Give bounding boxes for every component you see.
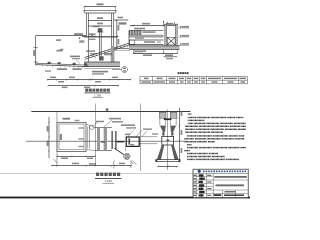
table title: [178, 72, 189, 74]
company name: [203, 171, 246, 173]
interior water level marks: [89, 33, 96, 35]
small box at left end: [130, 40, 135, 44]
third col texts: [207, 175, 211, 196]
gate dark bar: [164, 118, 172, 120]
embankment slope double line: [85, 43, 130, 58]
left label texts: [194, 175, 197, 196]
gate hoist: [98, 28, 103, 32]
right vertical dim: [179, 108, 181, 160]
forebay box inner: [59, 124, 84, 150]
foundation note text: [92, 71, 108, 73]
outlet channel walls: [140, 136, 158, 138]
end sill: [155, 159, 180, 161]
valve chamber thick box: [126, 137, 139, 146]
culvert barrel: [129, 39, 164, 41]
dim texts around line1: [50, 77, 56, 79]
leaders and labels above valve chamber: [128, 130, 134, 137]
converging walls: [160, 126, 166, 132]
inlet labels: [143, 31, 156, 33]
approach channel hatch ticks: [42, 65, 83, 69]
reservoir level line: [36, 35, 87, 37]
faint sheet guide line: [0, 173, 193, 175]
labels above channel with leader: [57, 50, 63, 52]
gate stem: [99, 32, 101, 57]
data row texts: [142, 81, 246, 82]
signature blobs: [199, 174, 205, 196]
second dim: [164, 56, 178, 58]
sheet bottom border bar: [0, 197, 250, 199]
foundation slab hatched: [84, 62, 120, 67]
vertical centerline: [167, 110, 169, 171]
label above box: [63, 118, 71, 120]
base slab hatched: [129, 46, 180, 50]
svg-text:1:100: 1:100: [94, 94, 101, 98]
section cut vertical x95: [94, 104, 96, 167]
right gate tower: [164, 23, 177, 25]
operating platform deck: [82, 36, 118, 38]
slope hatch ticks: [88, 45, 125, 59]
project name: [214, 176, 247, 178]
small labels right inside box: [79, 127, 84, 128]
header row texts: [144, 78, 246, 79]
labels above strips: [104, 120, 112, 127]
up arrow left of tower: [163, 21, 165, 26]
plan main dim line: [51, 165, 131, 167]
circle callout with thick leader: [124, 153, 130, 159]
small label near bowtie top: [106, 108, 109, 111]
tower right wall: [111, 13, 113, 62]
interior floor line 2: [88, 25, 111, 27]
top wing blocks hatched: [159, 112, 166, 118]
base note text: [134, 50, 146, 52]
dim text 2500: [97, 3, 104, 5]
mid channel walls: [159, 118, 161, 125]
plan title: [96, 173, 120, 176]
wall end blobs: [162, 132, 164, 135]
break wavy: [113, 161, 114, 169]
title block grid: [193, 173, 248, 197]
label above hoist: [93, 26, 100, 28]
transition diagonals: [86, 124, 95, 128]
bottom dim line: [134, 53, 178, 55]
right retaining wall hatched: [111, 46, 115, 62]
forebay box outer: [57, 122, 86, 151]
note word gaps: [193, 117, 241, 161]
gate slot verticals after box: [87, 127, 89, 149]
channel centerline: [26, 140, 187, 142]
interior floor line 1: [88, 20, 111, 22]
middle box: [162, 136, 174, 145]
water mark below platform left: [79, 40, 84, 42]
bottom row entries: [225, 191, 236, 193]
gate at bottom: [99, 56, 104, 60]
dam axis long line: [31, 111, 190, 113]
label above inlet: [134, 28, 145, 30]
title underline: [85, 92, 111, 94]
diverging walls (dark): [157, 145, 165, 160]
backfill wedge hatch right of wall: [116, 45, 129, 49]
slope dashes lower right: [131, 161, 137, 165]
interior dim text: [97, 17, 103, 19]
detail circle small: [90, 125, 94, 129]
rotated dim text in box: [60, 134, 62, 140]
bottom dimension line 1: [47, 79, 131, 81]
gate box with X: [167, 37, 175, 45]
box bottom dim: [57, 156, 95, 158]
dimension line top of tower: [85, 6, 116, 8]
trash rack comb: [129, 30, 142, 35]
elevation flags right: [179, 26, 190, 45]
approach channel bottom: [36, 63, 88, 65]
left dimension vertical: [35, 36, 37, 66]
extra labels above foundation: [86, 50, 95, 52]
left bottom arrow: [54, 159, 58, 163]
elevation flags right of stem: [104, 53, 112, 55]
section cut vertical x140: [140, 104, 142, 172]
section cut vertical x57: [56, 112, 58, 166]
logo: [198, 170, 201, 173]
tower left wall: [85, 13, 87, 37]
drawing title: [216, 184, 245, 186]
channel labels below: [57, 68, 67, 70]
top dimension line: [130, 25, 177, 27]
bottom dimension line 2: [48, 85, 118, 87]
dim line right of tower top: [114, 19, 128, 21]
svg-text:1:100: 1:100: [105, 179, 112, 183]
tower top slab: [84, 10, 117, 12]
culvert inlet walls in plan (hatched strips): [97, 128, 100, 151]
water level flag left: [79, 38, 81, 40]
table grid: [140, 77, 247, 84]
channel flow chevrons: [48, 62, 87, 66]
ground line right of wall: [114, 48, 130, 50]
elevation text top right: [119, 22, 127, 24]
section title chars: [85, 89, 110, 92]
bottom dim: [158, 165, 177, 167]
detail circle callout: [122, 67, 128, 73]
left vertical dimension: [48, 117, 50, 158]
right vertical dimension line: [116, 20, 118, 48]
gate slot dark bars: [111, 131, 113, 149]
small text left: [56, 39, 61, 41]
